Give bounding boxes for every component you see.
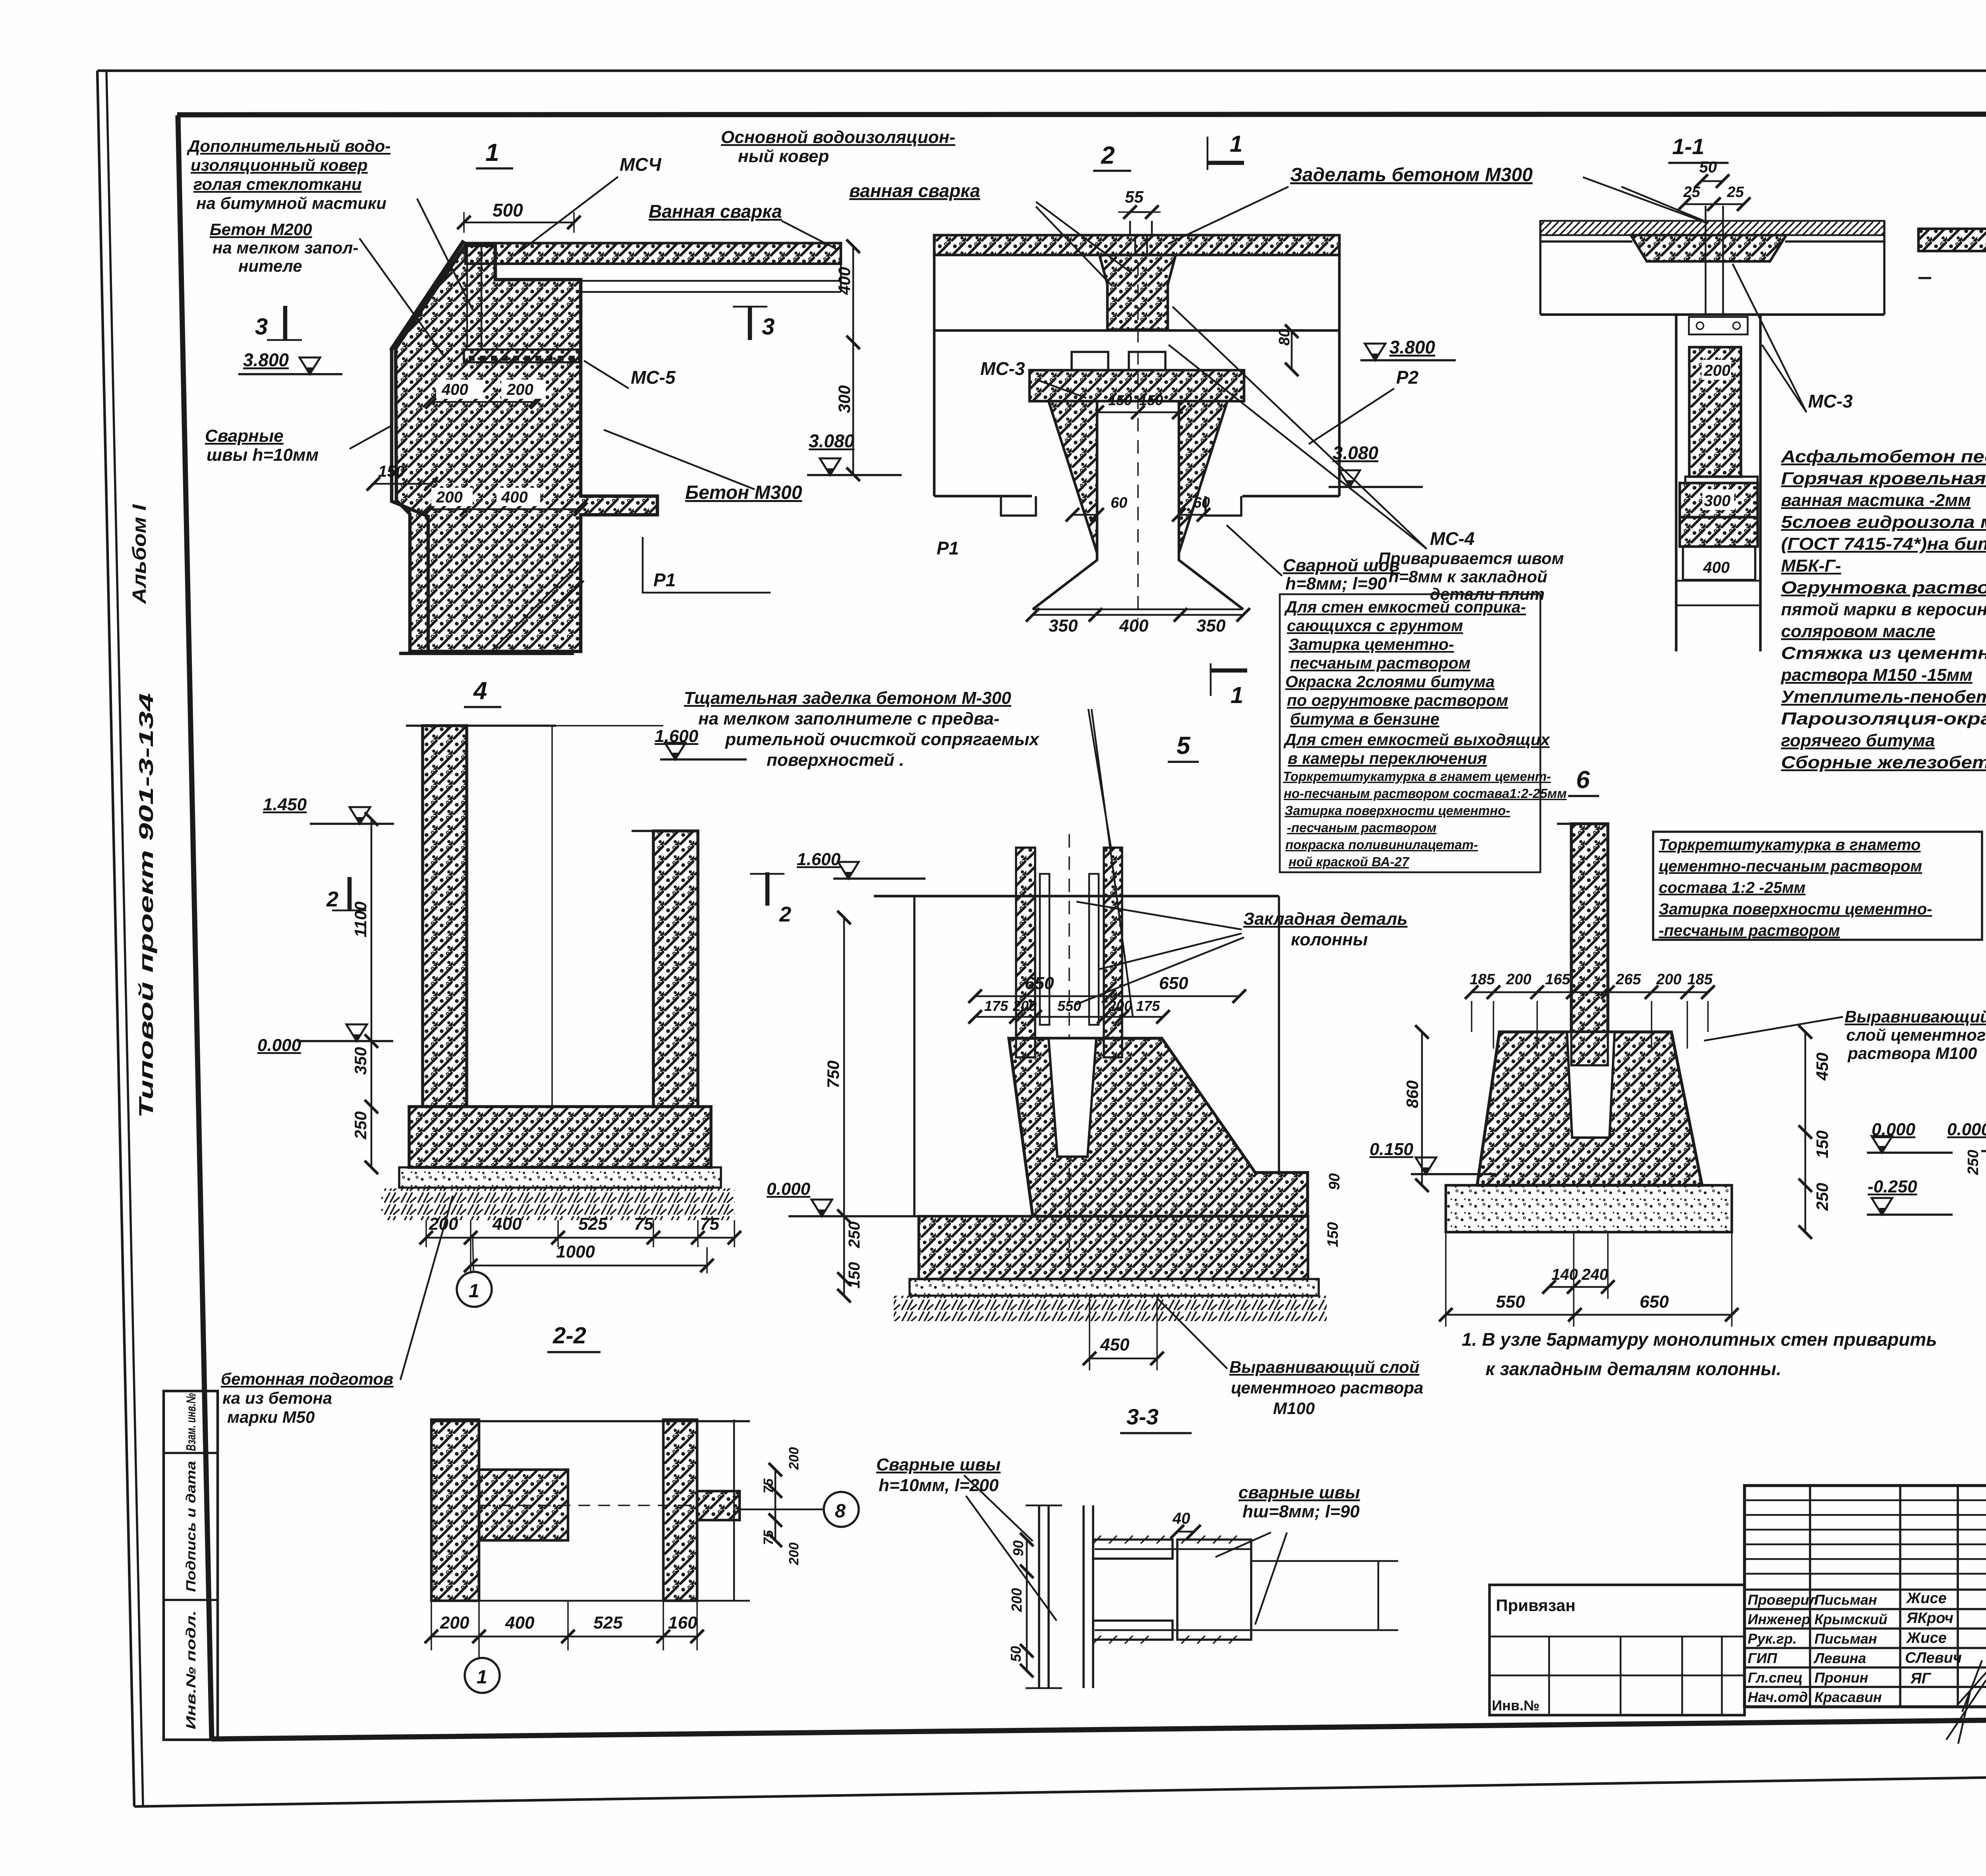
svg-text:50: 50 bbox=[1699, 158, 1717, 176]
svg-text:пятой марки в керосине или: пятой марки в керосине или bbox=[1781, 600, 1986, 619]
svg-text:150: 150 bbox=[1139, 392, 1163, 408]
svg-text:150: 150 bbox=[1813, 1130, 1831, 1158]
svg-text:Сварные швы: Сварные швы bbox=[876, 1455, 1001, 1474]
svg-text:Проверил: Проверил bbox=[1748, 1592, 1818, 1608]
svg-text:ный ковер: ный ковер bbox=[738, 147, 829, 166]
svg-text:4: 4 bbox=[473, 677, 487, 705]
svg-text:1100: 1100 bbox=[351, 902, 370, 937]
svg-text:80: 80 bbox=[1276, 329, 1293, 346]
svg-text:650: 650 bbox=[1025, 974, 1054, 993]
svg-text:Огрунтовка раствором битума: Огрунтовка раствором битума bbox=[1781, 578, 1986, 597]
svg-text:битума в бензине: битума в бензине bbox=[1290, 710, 1439, 728]
svg-text:ванная мастика -2мм: ванная мастика -2мм bbox=[1781, 491, 1971, 510]
svg-text:Р2: Р2 bbox=[1396, 367, 1419, 388]
svg-text:5слоев гидроизола марок ГИ-Г,Г: 5слоев гидроизола марок ГИ-Г,ГИ-К bbox=[1781, 512, 1986, 532]
svg-text:Для стен емкостей соприка-: Для стен емкостей соприка- bbox=[1284, 598, 1526, 616]
svg-text:по огрунтовке раствором: по огрунтовке раствором bbox=[1287, 691, 1508, 709]
svg-text:поверхностей .: поверхностей . bbox=[767, 750, 904, 770]
svg-text:400: 400 bbox=[505, 1613, 535, 1633]
svg-text:ЯКроч: ЯКроч bbox=[1906, 1610, 1953, 1627]
svg-text:Пронин: Пронин bbox=[1814, 1669, 1868, 1686]
svg-text:на мелком заполнителе с предва: на мелком заполнителе с предва- bbox=[698, 709, 999, 728]
svg-text:голая стеклоткани: голая стеклоткани bbox=[193, 175, 362, 193]
svg-text:нителе: нителе bbox=[238, 257, 302, 275]
svg-text:рительной очисткой сопрягаемых: рительной очисткой сопрягаемых bbox=[725, 730, 1039, 749]
svg-text:2: 2 bbox=[326, 887, 338, 911]
svg-text:3.080: 3.080 bbox=[1333, 442, 1379, 463]
svg-text:400: 400 bbox=[1119, 616, 1149, 636]
svg-text:Письман: Письман bbox=[1814, 1592, 1877, 1608]
svg-text:СЛевич: СЛевич bbox=[1905, 1650, 1962, 1666]
svg-text:сварные швы: сварные швы bbox=[1238, 1483, 1360, 1502]
svg-text:Окраска 2слоями битума: Окраска 2слоями битума bbox=[1285, 672, 1495, 691]
svg-text:покраска поливинилацетат-: покраска поливинилацетат- bbox=[1285, 837, 1478, 852]
svg-text:Привязан: Привязан bbox=[1496, 1596, 1575, 1615]
svg-text:400: 400 bbox=[501, 489, 528, 506]
svg-text:55: 55 bbox=[1125, 187, 1144, 206]
svg-text:Бетон М200: Бетон М200 bbox=[210, 220, 312, 239]
svg-text:150: 150 bbox=[378, 463, 405, 480]
svg-text:150: 150 bbox=[1325, 1222, 1341, 1247]
svg-text:к закладным деталям колонны.: к закладным деталям колонны. bbox=[1486, 1358, 1781, 1379]
svg-text:Основной водоизоляцион-: Основной водоизоляцион- bbox=[721, 128, 955, 147]
svg-text:сающихся с грунтом: сающихся с грунтом bbox=[1287, 616, 1463, 635]
svg-text:1: 1 bbox=[485, 139, 499, 166]
svg-text:525: 525 bbox=[593, 1613, 623, 1633]
svg-text:400: 400 bbox=[492, 1214, 522, 1234]
svg-text:Затирка цементно-: Затирка цементно- bbox=[1289, 635, 1454, 653]
svg-text:400: 400 bbox=[1703, 559, 1730, 576]
svg-text:3: 3 bbox=[255, 314, 268, 340]
svg-text:ванная сварка: ванная сварка bbox=[849, 180, 980, 201]
svg-text:Выравнивающий слой: Выравнивающий слой bbox=[1229, 1358, 1420, 1376]
svg-text:песчаным раствором: песчаным раствором bbox=[1290, 654, 1470, 672]
svg-text:175: 175 bbox=[1136, 998, 1160, 1014]
svg-text:(ГОСТ 7415-74*)на битумной мас: (ГОСТ 7415-74*)на битумной мастике bbox=[1781, 534, 1986, 554]
svg-text:350: 350 bbox=[1049, 616, 1078, 636]
svg-text:цементного раствора: цементного раствора bbox=[1231, 1378, 1423, 1397]
svg-text:1: 1 bbox=[469, 1281, 479, 1302]
svg-text:75: 75 bbox=[634, 1214, 653, 1234]
svg-text:h=8мм; l=90: h=8мм; l=90 bbox=[1285, 574, 1387, 593]
svg-text:раствора М100: раствора М100 bbox=[1847, 1044, 1977, 1063]
svg-text:50: 50 bbox=[1008, 1646, 1024, 1662]
svg-text:Закладная деталь: Закладная деталь bbox=[1243, 909, 1408, 929]
svg-text:5: 5 bbox=[1177, 732, 1191, 759]
svg-text:250: 250 bbox=[1813, 1183, 1831, 1211]
svg-text:165: 165 bbox=[1545, 971, 1571, 988]
svg-text:60: 60 bbox=[1111, 495, 1127, 511]
svg-text:860: 860 bbox=[1403, 1080, 1422, 1108]
svg-text:Приваривается швом: Приваривается швом bbox=[1378, 549, 1564, 568]
svg-text:Сварные: Сварные bbox=[205, 426, 284, 446]
svg-text:-0.250: -0.250 bbox=[1868, 1177, 1917, 1196]
svg-text:1. В узле 5арматуру монолитных: 1. В узле 5арматуру монолитных стен прив… bbox=[1462, 1329, 1937, 1350]
svg-text:Тщательная заделка бетоном М-3: Тщательная заделка бетоном М-300 bbox=[684, 688, 1011, 708]
svg-text:в камеры переключения: в камеры переключения bbox=[1288, 749, 1487, 767]
svg-text:на мелком запол-: на мелком запол- bbox=[213, 238, 358, 257]
svg-text:слой цементного: слой цементного bbox=[1846, 1026, 1986, 1044]
svg-text:1: 1 bbox=[1231, 682, 1243, 708]
svg-text:Заделать бетоном М300: Заделать бетоном М300 bbox=[1290, 164, 1533, 185]
svg-text:бетонная подготов: бетонная подготов bbox=[221, 1370, 393, 1388]
svg-text:МС-4: МС-4 bbox=[1430, 528, 1474, 549]
svg-text:2: 2 bbox=[779, 902, 791, 926]
svg-text:Инв.№: Инв.№ bbox=[1492, 1697, 1540, 1714]
svg-text:200: 200 bbox=[1506, 971, 1531, 988]
svg-text:400: 400 bbox=[441, 381, 468, 398]
svg-text:200: 200 bbox=[1108, 998, 1132, 1014]
svg-text:1-1: 1-1 bbox=[1672, 134, 1704, 159]
svg-text:изоляционный ковер: изоляционный ковер bbox=[191, 156, 368, 174]
svg-text:25: 25 bbox=[1727, 184, 1744, 201]
svg-text:Асфальтобетон песчаный-30мм: Асфальтобетон песчаный-30мм bbox=[1781, 447, 1986, 466]
svg-text:М100: М100 bbox=[1273, 1399, 1315, 1418]
svg-text:650: 650 bbox=[1159, 974, 1188, 993]
svg-text:-песчаным раствором: -песчаным раствором bbox=[1287, 820, 1437, 835]
svg-text:Р1: Р1 bbox=[937, 538, 959, 558]
svg-text:185: 185 bbox=[1687, 971, 1713, 988]
svg-text:250: 250 bbox=[1965, 1150, 1982, 1175]
svg-text:200: 200 bbox=[506, 381, 533, 398]
svg-text:Письман: Письман bbox=[1814, 1631, 1877, 1647]
svg-text:Крымский: Крымский bbox=[1814, 1611, 1887, 1627]
svg-text:Ванная сварка: Ванная сварка bbox=[649, 201, 782, 222]
svg-text:1.450: 1.450 bbox=[263, 795, 307, 814]
svg-text:60: 60 bbox=[1193, 495, 1210, 511]
svg-text:350: 350 bbox=[1196, 616, 1226, 636]
svg-text:Альбом I: Альбом I bbox=[129, 504, 150, 604]
svg-text:раствора М150 -15мм: раствора М150 -15мм bbox=[1781, 665, 1972, 685]
svg-text:200: 200 bbox=[786, 1542, 802, 1565]
svg-text:0.000: 0.000 bbox=[257, 1036, 301, 1055]
svg-text:Утеплитель-пенобетон μ=300кгс/: Утеплитель-пенобетон μ=300кгс/м³δ bbox=[1781, 687, 1986, 707]
svg-text:200: 200 bbox=[1008, 1588, 1025, 1612]
svg-text:МС-5: МС-5 bbox=[631, 367, 676, 388]
svg-text:на битумной мастики: на битумной мастики bbox=[196, 194, 386, 213]
svg-text:175: 175 bbox=[984, 998, 1008, 1014]
svg-text:Левина: Левина bbox=[1813, 1650, 1866, 1666]
svg-text:Торкретштукатурка в гнамето: Торкретштукатурка в гнамето bbox=[1659, 836, 1920, 854]
svg-text:Жисе: Жисе bbox=[1906, 1630, 1947, 1646]
svg-text:марки М50: марки М50 bbox=[227, 1408, 315, 1426]
svg-text:h=8мм к закладной: h=8мм к закладной bbox=[1389, 567, 1547, 586]
svg-text:0.150: 0.150 bbox=[1370, 1140, 1414, 1159]
svg-text:400: 400 bbox=[835, 267, 854, 295]
svg-text:90: 90 bbox=[1010, 1540, 1026, 1556]
svg-text:Р1: Р1 bbox=[653, 570, 676, 590]
svg-text:МС-3: МС-3 bbox=[1808, 391, 1853, 412]
svg-text:40: 40 bbox=[1172, 1510, 1190, 1527]
svg-text:Затирка поверхности цементно-: Затирка поверхности цементно- bbox=[1285, 803, 1510, 818]
svg-text:300: 300 bbox=[835, 385, 854, 413]
svg-text:75: 75 bbox=[700, 1214, 719, 1234]
svg-text:200: 200 bbox=[786, 1447, 802, 1470]
svg-text:Подпись и дата: Подпись и дата bbox=[184, 1461, 198, 1592]
svg-text:0.000: 0.000 bbox=[767, 1179, 811, 1199]
svg-text:90: 90 bbox=[1326, 1173, 1343, 1190]
svg-text:2-2: 2-2 bbox=[553, 1323, 586, 1349]
svg-text:Инв.№ подл.: Инв.№ подл. bbox=[184, 1610, 198, 1729]
svg-text:Стяжка из цементно-песчаного: Стяжка из цементно-песчаного bbox=[1781, 643, 1986, 663]
svg-text:Взам. инв.№: Взам. инв.№ bbox=[184, 1393, 198, 1451]
svg-text:200: 200 bbox=[1704, 362, 1731, 379]
svg-text:колонны: колонны bbox=[1291, 930, 1368, 949]
svg-text:750: 750 bbox=[824, 1061, 842, 1088]
svg-text:hш=8мм; l=90: hш=8мм; l=90 bbox=[1242, 1502, 1360, 1521]
svg-text:Затирка поверхности цементно-: Затирка поверхности цементно- bbox=[1659, 900, 1932, 918]
svg-text:ЯГ: ЯГ bbox=[1910, 1670, 1932, 1687]
svg-text:550: 550 bbox=[1496, 1292, 1525, 1312]
svg-text:Сварной шов: Сварной шов bbox=[1283, 556, 1400, 575]
svg-text:3-3: 3-3 bbox=[1126, 1404, 1159, 1429]
svg-text:1: 1 bbox=[477, 1667, 487, 1688]
svg-text:1.600: 1.600 bbox=[797, 850, 841, 869]
svg-text:1: 1 bbox=[1230, 131, 1242, 157]
svg-text:ка из бетона: ка из бетона bbox=[222, 1389, 332, 1407]
svg-text:3.080: 3.080 bbox=[809, 431, 855, 451]
svg-text:75: 75 bbox=[761, 1478, 776, 1493]
svg-text:горячего битума: горячего битума bbox=[1781, 731, 1935, 750]
svg-text:Жисе: Жисе bbox=[1906, 1590, 1947, 1607]
svg-text:250: 250 bbox=[351, 1111, 370, 1140]
svg-text:160: 160 bbox=[668, 1613, 697, 1633]
svg-text:6: 6 bbox=[1576, 766, 1590, 794]
svg-text:Горячая кровельная антисептиро: Горячая кровельная антисептиро- bbox=[1781, 469, 1986, 488]
svg-text:200: 200 bbox=[436, 489, 463, 506]
svg-text:но-песчаным раствором состава1: но-песчаным раствором состава1:2-25мм bbox=[1284, 786, 1567, 801]
svg-text:Инженер: Инженер bbox=[1748, 1611, 1810, 1627]
svg-text:-песчаным раствором: -песчаным раствором bbox=[1659, 922, 1840, 939]
svg-text:Пароизоляция-окраска 1слоем: Пароизоляция-окраска 1слоем bbox=[1781, 709, 1986, 728]
svg-text:состава 1:2 -25мм: состава 1:2 -25мм bbox=[1659, 879, 1806, 896]
svg-text:0.000: 0.000 bbox=[1947, 1120, 1986, 1139]
svg-text:МБК-Г-: МБК-Г- bbox=[1781, 556, 1841, 576]
svg-text:соляровом масле: соляровом масле bbox=[1781, 622, 1935, 641]
svg-text:Дополнительный водо-: Дополнительный водо- bbox=[187, 137, 390, 155]
svg-text:300: 300 bbox=[1704, 492, 1731, 510]
svg-text:МСЧ: МСЧ bbox=[620, 154, 662, 175]
svg-text:650: 650 bbox=[1640, 1292, 1669, 1312]
svg-text:75: 75 bbox=[761, 1530, 776, 1545]
svg-text:Выравнивающий: Выравнивающий bbox=[1845, 1007, 1986, 1026]
svg-text:3: 3 bbox=[762, 314, 775, 340]
svg-text:ГИП: ГИП bbox=[1748, 1650, 1777, 1666]
svg-text:Красавин: Красавин bbox=[1814, 1689, 1882, 1705]
svg-text:Типовой проект 901-3-134: Типовой проект 901-3-134 bbox=[135, 693, 157, 1118]
svg-text:150: 150 bbox=[1108, 392, 1132, 408]
svg-text:200: 200 bbox=[440, 1613, 469, 1633]
svg-text:200: 200 bbox=[1012, 998, 1037, 1014]
svg-text:Рук.гр.: Рук.гр. bbox=[1748, 1631, 1797, 1647]
svg-text:240: 240 bbox=[1581, 1266, 1608, 1283]
svg-text:Для стен емкостей выходящих: Для стен емкостей выходящих bbox=[1283, 730, 1551, 749]
svg-text:швы h=10мм: швы h=10мм bbox=[207, 445, 319, 465]
svg-text:500: 500 bbox=[493, 200, 523, 220]
svg-text:3.800: 3.800 bbox=[1389, 337, 1435, 357]
svg-text:550: 550 bbox=[1057, 998, 1081, 1014]
svg-text:185: 185 bbox=[1470, 971, 1495, 988]
svg-text:450: 450 bbox=[1813, 1053, 1831, 1081]
svg-text:ной краской ВА-27: ной краской ВА-27 bbox=[1289, 854, 1410, 869]
svg-text:350: 350 bbox=[351, 1047, 370, 1075]
svg-text:1000: 1000 bbox=[556, 1242, 595, 1262]
svg-text:3.800: 3.800 bbox=[243, 350, 289, 370]
svg-text:Нач.отд: Нач.отд bbox=[1748, 1689, 1808, 1705]
svg-text:25: 25 bbox=[1683, 184, 1700, 201]
svg-text:250: 250 bbox=[846, 1221, 863, 1248]
svg-text:265: 265 bbox=[1615, 971, 1641, 988]
svg-text:525: 525 bbox=[578, 1214, 608, 1234]
svg-text:Гл.спец: Гл.спец bbox=[1748, 1669, 1802, 1686]
svg-text:200: 200 bbox=[1656, 971, 1681, 988]
svg-text:цементно-песчаным раствором: цементно-песчаным раствором bbox=[1659, 858, 1922, 875]
svg-text:8: 8 bbox=[835, 1501, 846, 1522]
svg-text:2: 2 bbox=[1101, 142, 1115, 169]
svg-text:МС-3: МС-3 bbox=[980, 358, 1025, 379]
svg-text:150: 150 bbox=[846, 1262, 863, 1289]
svg-text:Торкретштукатурка в гнамет цем: Торкретштукатурка в гнамет цемент- bbox=[1283, 769, 1551, 784]
svg-text:Сборные железобетонные плиты: Сборные железобетонные плиты bbox=[1781, 753, 1986, 772]
svg-text:450: 450 bbox=[1100, 1335, 1130, 1354]
